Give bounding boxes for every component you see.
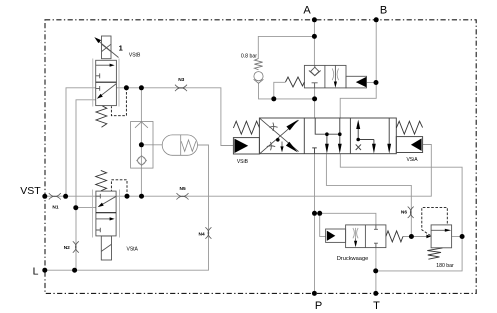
svg-text:VStA: VStA <box>127 247 139 253</box>
svg-text:180 bar: 180 bar <box>436 263 454 269</box>
svg-text:1: 1 <box>119 44 123 53</box>
svg-text:N2: N2 <box>64 245 70 251</box>
svg-text:N1: N1 <box>52 204 58 210</box>
svg-text:T: T <box>373 300 380 312</box>
svg-text:B: B <box>380 5 387 17</box>
svg-text:VST: VST <box>20 185 41 197</box>
svg-text:VSiA: VSiA <box>406 157 418 163</box>
svg-text:N4: N4 <box>199 231 205 237</box>
svg-text:Druckwaage: Druckwaage <box>337 256 369 262</box>
svg-text:L: L <box>33 265 39 277</box>
svg-text:VSiB: VSiB <box>237 159 249 165</box>
svg-text:A: A <box>303 5 311 17</box>
svg-text:N3: N3 <box>178 77 184 83</box>
svg-text:N6: N6 <box>401 209 407 215</box>
svg-text:VStB: VStB <box>129 53 141 59</box>
svg-text:N5: N5 <box>180 186 186 192</box>
svg-text:0.8 bar: 0.8 bar <box>241 54 257 60</box>
svg-text:P: P <box>315 300 322 312</box>
